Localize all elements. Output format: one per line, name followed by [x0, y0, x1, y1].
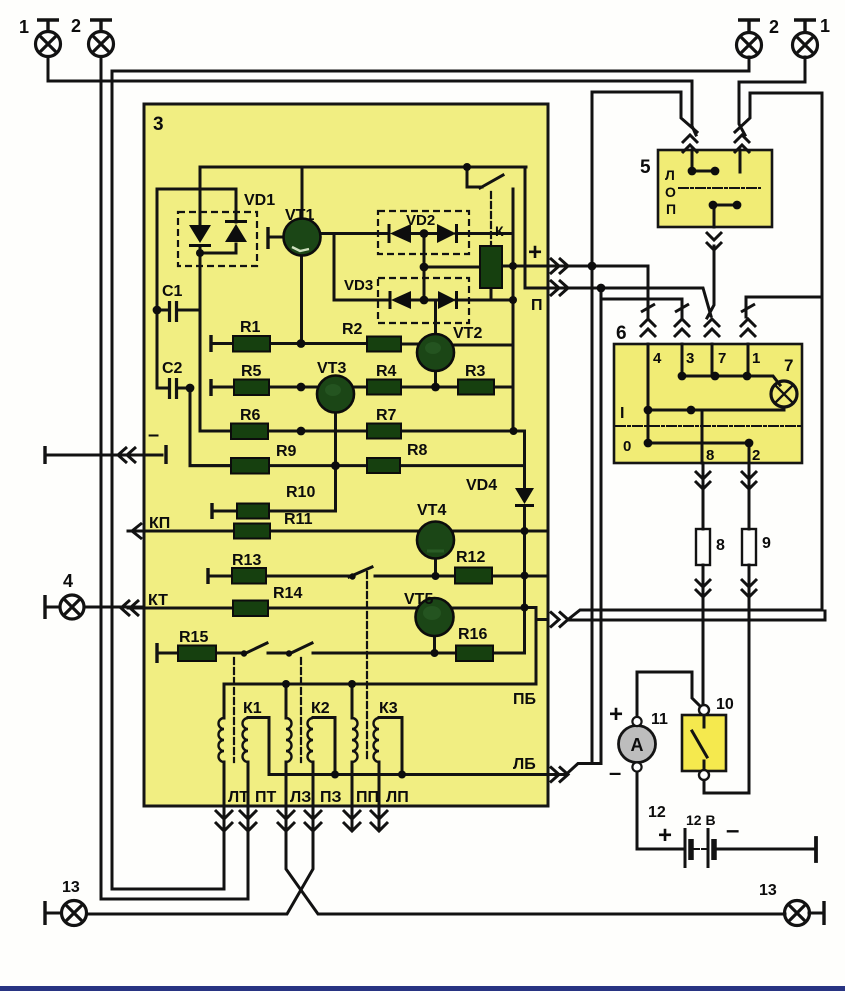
svg-text:7: 7: [784, 356, 793, 375]
wire LB coil bus: [269, 773, 548, 776]
svg-text:ПБ: ПБ: [513, 691, 536, 708]
wire relay arm pivot: [467, 167, 482, 187]
arrows LP down: [370, 810, 388, 831]
svg-text:12 В: 12 В: [686, 812, 716, 828]
svg-text:R7: R7: [376, 407, 397, 424]
wire ammeter bottom to battery: [637, 771, 683, 849]
wire R9 R8 row: [190, 464, 525, 467]
svg-text:4: 4: [63, 571, 73, 591]
coil W4 feed: [351, 684, 354, 718]
wire VT2 right: [453, 344, 513, 347]
svg-text:1: 1: [752, 350, 760, 367]
wire PZ below block to left lamp13: [87, 806, 313, 914]
svg-text:R14: R14: [273, 585, 302, 602]
coil W1 top bar: [248, 716, 269, 719]
svg-text:A: A: [631, 735, 644, 755]
svg-text:2: 2: [752, 447, 760, 464]
wire rows vertical 524: [513, 431, 525, 653]
svg-text:13: 13: [759, 882, 777, 899]
svg-text:12: 12: [648, 804, 666, 821]
block6 pin7 inner: [711, 344, 714, 376]
wire left vertical from bus1: [111, 71, 114, 889]
switch 6 block background: [614, 344, 802, 463]
unit 3 block background: [144, 104, 548, 806]
wire R6 row: [200, 430, 513, 433]
svg-text:ЛЗ: ЛЗ: [290, 789, 311, 806]
wire K coil left feed: [424, 266, 480, 269]
wire C1 left stub: [157, 309, 167, 312]
bottom scan edge strip: [0, 986, 845, 991]
diode VD3 right: [438, 291, 456, 309]
svg-text:8: 8: [706, 447, 714, 464]
connector X5 left harness half: [692, 81, 696, 135]
wire ammeter top to switch10: [637, 672, 701, 718]
relay K linkage dashed: [490, 192, 492, 246]
switch 10 block background: [682, 715, 726, 771]
block6 pin4 inner: [647, 344, 650, 443]
switch 10 arm: [692, 731, 707, 757]
diode VD1 right bar: [225, 220, 247, 223]
coil W4 tail: [351, 762, 354, 806]
wire PB output: [536, 618, 548, 621]
terminal bar R5: [209, 379, 212, 396]
svg-text:R11: R11: [284, 511, 313, 528]
diode VD2 left: [390, 224, 411, 243]
lamp 2 top-right lead: [748, 57, 751, 71]
switch arm R15 a: [244, 643, 267, 654]
arrows fuse9 down: [741, 579, 757, 597]
wire C1 right stub: [178, 309, 200, 312]
arrows block6 pin1: [740, 319, 756, 337]
arrows block6 pin4: [640, 319, 656, 337]
connector X5 left block half: [592, 92, 697, 132]
coil W1 tail: [247, 762, 250, 806]
arrows LT down: [215, 810, 233, 831]
diode VD2 right bar: [455, 224, 458, 243]
svg-text:R16: R16: [458, 626, 487, 643]
wire P vertical 601: [600, 288, 603, 764]
lamp 13 left stub: [47, 912, 61, 915]
terminal bar minus far-left: [43, 446, 46, 464]
svg-text:ПП: ПП: [356, 789, 379, 806]
wire KT line to lamp4: [84, 606, 144, 609]
wire relay fixed vertical 513: [512, 189, 515, 431]
coil W1 leg: [268, 718, 271, 775]
switch arm R13 row: [349, 567, 372, 577]
battery 12 plates: [685, 828, 714, 868]
arrows X5 bottom pin down: [706, 232, 722, 250]
switch arm R15 b: [289, 643, 312, 654]
fuse 8: [696, 529, 710, 565]
svg-text:VT1: VT1: [285, 207, 314, 224]
wire P output line: [525, 288, 711, 316]
resistor R4: [367, 380, 401, 395]
diode VD3 right bar: [455, 291, 458, 309]
wire LB output slant: [548, 764, 601, 775]
svg-text:ЛБ: ЛБ: [513, 756, 536, 773]
VD2 dashed box: [378, 211, 469, 254]
block5 contact row L: [692, 170, 715, 173]
wire VT5 emitter: [433, 636, 436, 654]
switch 10 terminals: [699, 705, 709, 715]
wire VT2 base: [434, 300, 437, 334]
terminal bar R13: [206, 568, 209, 584]
resistor R5: [234, 380, 269, 396]
wire fuse9 upper: [748, 463, 751, 529]
lamp 4 stub: [46, 606, 60, 609]
wire VT1 to VD2: [320, 232, 389, 235]
block5 contact row P: [713, 204, 737, 207]
arrows LZ down: [277, 810, 295, 831]
wire LZ below block to right lamp13: [286, 806, 785, 914]
relay linkage dashed a: [233, 658, 235, 762]
arrows X5 right pin up: [734, 135, 750, 153]
svg-text:R9: R9: [276, 443, 297, 460]
terminal bar R1: [209, 335, 212, 352]
wire fuse9 lower to battery: [748, 565, 751, 793]
svg-text:R3: R3: [465, 363, 486, 380]
terminal bar R15: [155, 643, 158, 663]
diode VD3 left: [391, 291, 411, 309]
coil winding W2: [286, 718, 292, 762]
lamp 7 in block6: [771, 381, 797, 407]
resistor R12: [455, 568, 492, 584]
svg-text:+: +: [528, 239, 542, 266]
svg-text:1: 1: [19, 17, 29, 37]
svg-text:Л: Л: [665, 167, 675, 183]
diode VD1 left bar: [189, 244, 211, 247]
VD3 dashed box: [378, 278, 469, 323]
wire bottom-left to LT: [112, 888, 224, 891]
wire VT2 emitter: [434, 371, 437, 387]
wire R15 row: [157, 652, 525, 655]
lamp 2 top-right: [737, 20, 762, 58]
resistor R2: [367, 337, 401, 352]
wire fuse8 lower to switch10: [702, 565, 705, 706]
wire +feed vertical 592: [591, 92, 594, 764]
resistor R3: [458, 380, 494, 395]
wire C2 left stub: [157, 387, 167, 390]
svg-text:КТ: КТ: [148, 592, 168, 609]
svg-text:VT2: VT2: [453, 325, 482, 342]
wire VD3 left branch: [334, 234, 390, 301]
arrows LB output: [550, 767, 568, 783]
capacitor C2: [170, 378, 177, 399]
arrows PT down: [239, 810, 257, 831]
coil winding K3 main: [374, 718, 379, 762]
wire X5 bottom pin down to pin7: [707, 246, 714, 318]
wire VD1 left branch vertical: [199, 167, 202, 431]
lamp 13 left: [45, 901, 87, 926]
svg-text:4: 4: [653, 350, 662, 367]
resistor R1: [233, 336, 270, 352]
wire VD2 right to relay vertical: [456, 232, 513, 235]
wire VD3 right: [456, 299, 513, 302]
lamp 1 top-right: [793, 20, 818, 58]
svg-text:КП: КП: [149, 515, 170, 532]
relay coil K: [480, 246, 502, 288]
wire R13 row: [208, 575, 547, 578]
svg-text:О: О: [665, 184, 676, 200]
svg-text:–: –: [726, 817, 739, 844]
wire block6 pin4 feed: [647, 266, 650, 317]
switch pivot dots: [241, 650, 247, 656]
coil winding K2 main: [308, 718, 314, 762]
svg-text:R12: R12: [456, 549, 485, 566]
svg-text:R4: R4: [376, 363, 397, 380]
arrows fuse8 down: [695, 579, 711, 597]
resistor R16: [456, 646, 493, 662]
coil winding W0: [219, 718, 225, 762]
ammeter 11: [619, 717, 656, 772]
wire R1 row: [211, 342, 420, 346]
connector X5 right harness half: [739, 82, 745, 135]
svg-text:+: +: [658, 822, 672, 849]
block6 divider dash-dot: [616, 425, 802, 427]
svg-text:+: +: [609, 701, 623, 728]
resistor R10: [237, 504, 269, 519]
relay linkage dashed b: [300, 658, 302, 762]
svg-text:R2: R2: [342, 321, 363, 338]
block6 contact dots: [678, 372, 687, 381]
wire C2 net vertical 190: [190, 388, 231, 466]
coil W2 feed: [285, 684, 288, 718]
wire PP below block: [351, 806, 354, 830]
svg-text:VD3: VD3: [344, 277, 373, 294]
wire top inner bus: [200, 166, 526, 169]
svg-text:С2: С2: [162, 360, 183, 377]
svg-text:3: 3: [153, 114, 164, 135]
svg-text:R13: R13: [232, 552, 261, 569]
svg-text:ЛТ: ЛТ: [228, 789, 249, 806]
svg-text:R1: R1: [240, 319, 261, 336]
svg-text:К3: К3: [379, 700, 398, 717]
arrows PB output: [550, 612, 568, 628]
diode VD2 left bar: [388, 224, 391, 243]
block5 contact dots: [688, 167, 697, 176]
wire battery right to end bar: [717, 848, 815, 851]
block6 contact rowI: [648, 409, 784, 412]
wire KT R14 row: [128, 607, 525, 610]
svg-text:7: 7: [718, 350, 726, 367]
svg-text:VT3: VT3: [317, 360, 346, 377]
wire LT below block: [223, 806, 226, 889]
wire block6 pin1 feed: [746, 297, 822, 317]
resistor R14: [233, 601, 268, 617]
svg-text:5: 5: [640, 157, 651, 178]
coil W3 tail: [312, 762, 315, 806]
terminal bar minus: [164, 445, 167, 464]
wire bottom-left to PT: [101, 898, 248, 901]
wire minus terminal: [48, 454, 162, 457]
wire VT1 base stub: [270, 236, 284, 239]
wire VD3 mid: [411, 299, 438, 302]
svg-text:R15: R15: [179, 629, 208, 646]
resistor R13: [232, 568, 266, 584]
arrows P output: [550, 280, 568, 296]
arrows minus input: [118, 447, 136, 463]
resistor R7: [367, 424, 401, 439]
coil W3 leg: [334, 718, 337, 775]
svg-text:13: 13: [62, 879, 80, 896]
svg-text:0: 0: [623, 438, 631, 455]
connector slash pin3: [675, 304, 689, 312]
svg-text:2: 2: [71, 16, 81, 36]
connector slash pin1: [741, 304, 755, 312]
wire PB fork lower line: [568, 611, 825, 620]
resistor R15: [178, 646, 216, 662]
lamp 2 top-left lead (long left vertical): [100, 57, 103, 899]
arrows PZ down: [304, 810, 322, 831]
svg-text:2: 2: [769, 17, 779, 37]
terminal bar VT1: [266, 227, 269, 249]
svg-text:К1: К1: [243, 700, 262, 717]
svg-text:10: 10: [716, 696, 734, 713]
coil W5 top bar: [379, 716, 402, 719]
wire + output line: [502, 265, 648, 268]
svg-text:ПЗ: ПЗ: [320, 789, 342, 806]
coil W2 tail: [285, 762, 288, 806]
diode VD4: [515, 488, 534, 504]
svg-text:ПТ: ПТ: [255, 789, 277, 806]
capacitor C1: [170, 301, 177, 322]
svg-text:–: –: [148, 424, 159, 446]
svg-text:П: П: [531, 297, 543, 314]
block6 pin8 inner: [701, 410, 704, 463]
wire VT1 collector: [301, 167, 304, 219]
arrows PP down: [343, 810, 361, 831]
transistor VT3: [317, 376, 354, 413]
lamp 4: [45, 595, 84, 619]
arrows X5 left pin up: [682, 135, 698, 153]
svg-text:6: 6: [616, 323, 627, 344]
block6 contact row0: [648, 442, 749, 445]
wire VT4 emitter: [434, 559, 437, 577]
wire block6 pin3 feed: [601, 299, 682, 317]
svg-text:С1: С1: [162, 283, 183, 300]
diode VD2 right: [437, 224, 456, 243]
diode VD1 right: [225, 224, 247, 242]
diode VD1 left: [189, 225, 211, 243]
svg-text:R10: R10: [286, 484, 315, 501]
diode VD4 bar: [515, 504, 534, 507]
diode VD3 left bar: [389, 291, 392, 309]
svg-text:П: П: [666, 201, 676, 217]
resistor R8: [367, 458, 400, 473]
block5 pin stub right: [739, 150, 742, 172]
wire bus1 top: [112, 70, 749, 73]
coil W0 tail: [223, 762, 226, 806]
wire C2 right stub: [178, 387, 190, 390]
svg-text:VT5: VT5: [404, 591, 433, 608]
lamp 13 right stub: [809, 912, 823, 915]
block6 contact row1: [682, 376, 780, 385]
wire VT1 emitter: [300, 255, 303, 344]
svg-text:R5: R5: [241, 363, 262, 380]
wire VT3 emitter vertical: [334, 413, 337, 512]
coil winding K1 main: [243, 718, 248, 762]
switch 10 stubs: [703, 715, 706, 770]
wire bus2 top: [48, 80, 692, 83]
transistor VT2: [417, 334, 454, 371]
svg-text:ЛП: ЛП: [386, 789, 409, 806]
svg-text:I: I: [620, 405, 624, 422]
transistor VT4: [417, 522, 454, 559]
arrows block6 pin3: [674, 319, 690, 337]
connector X5 right block half: [735, 93, 822, 132]
wire VD2-VD3 link vertical: [423, 234, 426, 301]
svg-text:VD1: VD1: [244, 192, 275, 209]
svg-text:11: 11: [651, 711, 668, 728]
arrows KT input: [121, 600, 139, 616]
svg-text:К: К: [495, 223, 504, 239]
lamp 1 top-left: [36, 20, 61, 57]
svg-text:R8: R8: [407, 442, 428, 459]
wire R10 row: [213, 510, 336, 513]
svg-text:8: 8: [716, 537, 725, 554]
wire right inner vertical 536: [525, 608, 537, 685]
wire VD1 bottom rail: [200, 252, 236, 255]
terminal bar R10: [210, 503, 213, 519]
lamp 2 top-left: [89, 20, 114, 57]
wire K coil bottom: [490, 288, 493, 300]
arrows + output: [550, 258, 568, 274]
lamp 13 right: [785, 901, 825, 926]
block5 bottom pin stub: [713, 206, 716, 227]
block6 pin3 inner: [681, 344, 684, 376]
arrows block6 pin2 down: [741, 471, 757, 489]
resistor R6: [231, 424, 268, 440]
connector 5 block background: [658, 150, 772, 227]
block6 pin2 inner: [748, 443, 751, 463]
wire LP below block: [378, 806, 381, 830]
svg-text:3: 3: [686, 350, 694, 367]
wire P corner vertical 524: [524, 167, 527, 288]
lamp 1 top-left lead: [47, 57, 50, 81]
resistor R11: [234, 524, 270, 539]
wire VD2 mid: [411, 232, 437, 235]
arrows block6 pin8 down: [695, 471, 711, 489]
wire PT below block: [247, 806, 250, 899]
relay linkage dashed c: [366, 572, 368, 762]
svg-text:VT4: VT4: [417, 502, 446, 519]
connector slash pin4: [641, 304, 655, 312]
wire R5 row: [211, 386, 513, 389]
wire PB fork upper line to right: [568, 610, 822, 620]
battery cell link dashed: [694, 848, 706, 850]
relay arm: [480, 175, 503, 188]
arrows KP input: [132, 523, 142, 539]
wire KP R11 row: [128, 530, 547, 533]
transistor VT1: [284, 219, 321, 256]
coil W0 feed: [223, 684, 226, 718]
svg-text:VD2: VD2: [406, 212, 435, 229]
coil winding W4: [352, 718, 358, 762]
wire right outer vertical: [821, 93, 824, 610]
resistor R9: [231, 458, 269, 474]
wire fuse8 upper: [702, 463, 705, 529]
wire VD1 right branch: [157, 189, 236, 388]
svg-text:R6: R6: [240, 407, 261, 424]
junction dots: [463, 163, 471, 171]
svg-text:1: 1: [820, 16, 830, 36]
coil W5 tail: [378, 762, 381, 806]
svg-text:VD4: VD4: [466, 477, 497, 494]
fuse 9: [742, 529, 756, 565]
VD1 dashed box: [178, 212, 257, 266]
wire PB coil bus: [224, 683, 536, 686]
block6 pin1 inner: [747, 344, 750, 376]
